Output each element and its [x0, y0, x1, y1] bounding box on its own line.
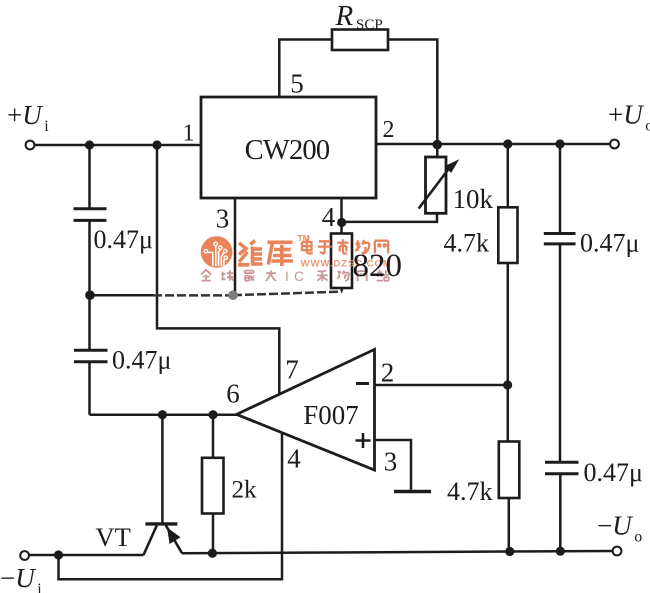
junction node line left: [85, 290, 95, 300]
transistor VT collector diagonal: [144, 525, 157, 555]
resistor 2k body: [202, 458, 224, 514]
svg-text:SCP: SCP: [356, 17, 383, 33]
svg-text:7: 7: [285, 355, 299, 385]
wire right cap chain vertical: [559, 144, 562, 551]
svg-text:I: I: [285, 268, 289, 284]
svg-text:0.47μ: 0.47μ: [94, 225, 153, 254]
svg-text:4: 4: [287, 444, 301, 474]
svg-text:VT: VT: [96, 522, 131, 552]
wire VT emitter rail to -Uo terminal: [182, 551, 613, 553]
junction node pin4 CW200: [337, 218, 346, 227]
wire pot bottom to CW200 pin4: [342, 213, 437, 222]
regulator U1 CW200 box: [201, 97, 376, 198]
wire node line y295 dashed part: [153, 294, 233, 297]
svg-text:3: 3: [216, 204, 230, 234]
junction on +Uo rail at cap branch: [555, 139, 564, 148]
wire left vertical through C1 node: [88, 145, 91, 295]
wire CW200 pin3 down: [234, 198, 237, 295]
wire op-amp pin3 to ground: [375, 440, 412, 490]
svg-text:−Ui: −Ui: [0, 563, 42, 593]
svg-text:0.47μ: 0.47μ: [112, 346, 171, 375]
wire CW200 pin4 down to R820: [340, 198, 343, 234]
junction node line pin3: [228, 290, 238, 300]
minus input sign: [356, 382, 369, 385]
wire op-amp pin4 and bottom loop to -Ui junction: [59, 432, 283, 580]
svg-text:2: 2: [383, 117, 395, 143]
capacitor C4 0.47u plates: [545, 462, 579, 473]
wire Rscp right down to pot: [388, 40, 437, 158]
op-amp U2 F007 triangle: [237, 349, 375, 470]
terminal -Uo: [613, 547, 622, 556]
capacitor C2 0.47u plates: [74, 350, 108, 361]
ground bar: [394, 490, 431, 494]
junction -Uo rail at 2k: [208, 549, 217, 558]
wire node line y295 solid part: [90, 294, 154, 297]
terminal +Uo: [610, 140, 619, 149]
svg-text:+Ui: +Ui: [7, 100, 49, 135]
transistor VT emitter diagonal: [166, 525, 182, 552]
svg-text:0.47μ: 0.47μ: [584, 458, 643, 487]
wire 4.7k chain vertical: [508, 144, 509, 552]
svg-text:820: 820: [353, 248, 403, 284]
svg-text:1: 1: [183, 121, 195, 147]
svg-text:F007: F007: [303, 400, 359, 430]
svg-text:2k: 2k: [232, 477, 258, 504]
junction pin6 line at VT base: [158, 410, 167, 419]
wire second vertical from input rail to op-amp pin7: [157, 145, 279, 393]
watermark overlay: [201, 233, 392, 284]
capacitor C3 0.47u plates: [544, 234, 576, 244]
svg-text:3: 3: [384, 447, 398, 477]
junction -Uo rail at cap: [556, 547, 565, 556]
svg-text:C: C: [294, 268, 304, 284]
wire +Ui rail: [30, 144, 201, 147]
junction on +Uo rail at 4.7k branch: [503, 139, 512, 148]
svg-text:4.7k: 4.7k: [444, 229, 490, 258]
junction pin2 wire at 4.7k chain: [503, 380, 512, 389]
resistor R820 body: [331, 234, 352, 289]
svg-text:10k: 10k: [453, 184, 494, 214]
wire VT base from op-amp output line: [161, 415, 164, 523]
wire op-amp pin2 to 4.7k chain: [375, 384, 508, 387]
wire 2k resistor vertical: [212, 415, 215, 554]
resistor 4.7k upper body: [498, 207, 517, 263]
terminal -Ui: [20, 551, 29, 560]
svg-text:CW200: CW200: [245, 135, 330, 166]
svg-text:−Uo: −Uo: [597, 511, 642, 546]
plus input sign: [356, 433, 371, 448]
junction on +Ui rail at C1: [85, 140, 94, 149]
svg-text:4.7k: 4.7k: [447, 477, 493, 506]
resistor 4.7k lower body: [499, 442, 520, 499]
potentiometer 10k arrow: [419, 165, 452, 209]
svg-text:R: R: [335, 0, 354, 32]
svg-text:0.47μ: 0.47μ: [580, 229, 639, 258]
resistor Rscp body: [332, 30, 388, 51]
svg-text:2: 2: [381, 358, 395, 388]
junction -Ui wire at bottom loop: [54, 550, 63, 559]
wire op-amp pin6 line: [90, 413, 237, 416]
potentiometer 10k body: [426, 157, 447, 213]
junction on +Uo rail at pot branch: [433, 140, 443, 150]
terminal +Ui: [26, 141, 35, 150]
svg-text:4: 4: [322, 202, 336, 232]
transistor VT emitter arrowhead: [167, 527, 181, 544]
capacitor C1 0.47u plates: [74, 209, 107, 221]
junction on +Ui rail at second branch: [152, 140, 161, 149]
transistor VT base bar: [145, 522, 177, 525]
wire +Uo rail: [376, 143, 614, 146]
wire left vertical through C2: [88, 295, 91, 415]
wire -Ui terminal to VT collector: [25, 554, 144, 557]
svg-text:6: 6: [226, 379, 240, 409]
wire R820 bottom: [340, 288, 343, 292]
svg-text:+Uo: +Uo: [608, 100, 650, 135]
wire node line to R820 dashed part: [233, 292, 342, 296]
junction pin6 line at 2k: [208, 410, 217, 419]
svg-text:5: 5: [290, 69, 304, 99]
junction -Uo rail at 4.7k: [505, 547, 514, 556]
wire CW200 pin5 to Rscp left: [279, 40, 332, 98]
